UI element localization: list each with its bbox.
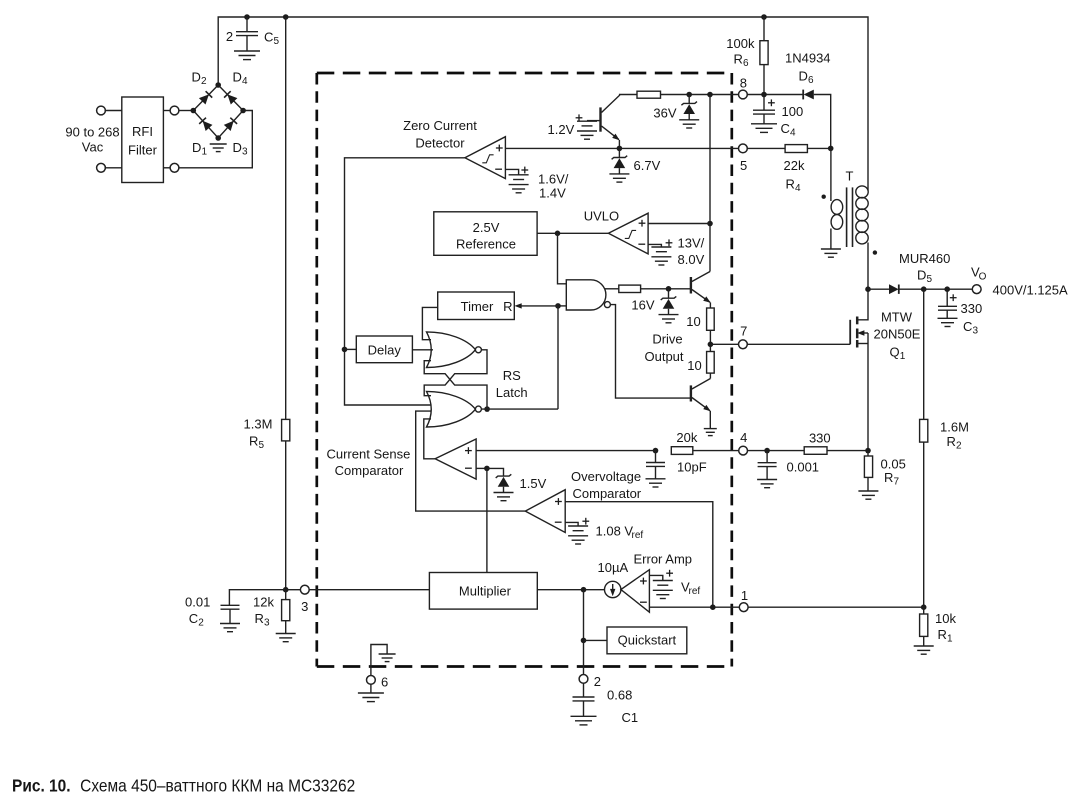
svg-text:Рис. 10. Схема 450–ваттного КК: Рис. 10. Схема 450–ваттного ККМ на MC332… bbox=[12, 776, 355, 796]
svg-text:MTW: MTW bbox=[881, 310, 913, 325]
svg-text:4: 4 bbox=[795, 183, 801, 194]
svg-text:R: R bbox=[786, 177, 795, 192]
svg-text:RS: RS bbox=[503, 368, 521, 383]
svg-text:1.6V/: 1.6V/ bbox=[538, 172, 569, 187]
svg-text:R: R bbox=[734, 52, 743, 67]
svg-text:20N50E: 20N50E bbox=[874, 327, 921, 342]
svg-text:2: 2 bbox=[198, 618, 204, 629]
svg-text:100: 100 bbox=[782, 104, 804, 119]
svg-text:MUR460: MUR460 bbox=[899, 251, 950, 266]
svg-text:C: C bbox=[781, 121, 790, 136]
svg-text:13V/: 13V/ bbox=[678, 236, 705, 251]
svg-text:1N4934: 1N4934 bbox=[785, 51, 831, 66]
svg-text:C: C bbox=[264, 30, 273, 45]
svg-text:Comparator: Comparator bbox=[335, 463, 404, 478]
svg-text:20k: 20k bbox=[676, 430, 697, 445]
svg-text:R: R bbox=[249, 434, 258, 449]
svg-text:10: 10 bbox=[686, 314, 700, 329]
svg-text:4: 4 bbox=[740, 430, 747, 445]
svg-text:R: R bbox=[938, 627, 947, 642]
svg-text:7: 7 bbox=[740, 324, 747, 339]
svg-text:ref: ref bbox=[632, 530, 644, 541]
svg-text:4: 4 bbox=[790, 128, 796, 139]
svg-text:Filter: Filter bbox=[128, 143, 158, 158]
svg-text:Vac: Vac bbox=[82, 140, 104, 155]
svg-text:6: 6 bbox=[743, 58, 749, 69]
svg-text:0.001: 0.001 bbox=[787, 460, 820, 475]
svg-text:1.08 V: 1.08 V bbox=[596, 524, 634, 539]
svg-text:Error Amp: Error Amp bbox=[634, 552, 693, 567]
svg-text:Output: Output bbox=[644, 349, 683, 364]
svg-text:Detector: Detector bbox=[415, 136, 465, 151]
svg-text:3: 3 bbox=[264, 618, 270, 629]
svg-text:D: D bbox=[192, 70, 201, 85]
svg-text:1.4V: 1.4V bbox=[539, 186, 566, 201]
svg-text:1.5V: 1.5V bbox=[520, 476, 547, 491]
svg-text:Latch: Latch bbox=[496, 385, 528, 400]
svg-text:Comparator: Comparator bbox=[573, 486, 642, 501]
svg-text:Current Sense: Current Sense bbox=[326, 447, 410, 462]
svg-text:C: C bbox=[963, 319, 972, 334]
svg-text:10µA: 10µA bbox=[598, 560, 629, 575]
svg-text:D: D bbox=[233, 70, 242, 85]
svg-text:0.01: 0.01 bbox=[185, 595, 210, 610]
svg-text:Delay: Delay bbox=[368, 342, 402, 357]
svg-text:Overvoltage: Overvoltage bbox=[571, 469, 641, 484]
svg-text:8: 8 bbox=[740, 76, 747, 91]
svg-text:ref: ref bbox=[689, 586, 701, 597]
svg-text:330: 330 bbox=[809, 430, 831, 445]
svg-text:T: T bbox=[846, 169, 854, 184]
svg-text:16V: 16V bbox=[631, 298, 654, 313]
svg-text:1.3M: 1.3M bbox=[244, 417, 273, 432]
svg-text:1: 1 bbox=[947, 634, 953, 645]
svg-text:R: R bbox=[503, 299, 512, 314]
svg-text:3: 3 bbox=[242, 147, 248, 158]
svg-text:UVLO: UVLO bbox=[584, 209, 619, 224]
svg-text:10: 10 bbox=[687, 358, 701, 373]
svg-text:2.5V: 2.5V bbox=[473, 220, 500, 235]
svg-text:1.2V: 1.2V bbox=[548, 122, 575, 137]
svg-text:Zero Current: Zero Current bbox=[403, 118, 477, 133]
svg-text:Reference: Reference bbox=[456, 237, 516, 252]
svg-text:2: 2 bbox=[956, 441, 962, 452]
svg-text:400V/1.125A: 400V/1.125A bbox=[993, 283, 1069, 298]
svg-text:4: 4 bbox=[242, 76, 248, 87]
svg-text:D: D bbox=[192, 140, 201, 155]
svg-text:36V: 36V bbox=[653, 106, 676, 121]
svg-text:O: O bbox=[979, 272, 987, 283]
svg-text:6: 6 bbox=[808, 75, 814, 86]
svg-text:2: 2 bbox=[201, 76, 207, 87]
svg-text:C: C bbox=[189, 611, 198, 626]
svg-text:2: 2 bbox=[226, 29, 233, 44]
svg-text:RFI: RFI bbox=[132, 124, 153, 139]
svg-text:330: 330 bbox=[961, 301, 983, 316]
svg-text:10pF: 10pF bbox=[677, 460, 707, 475]
svg-text:R: R bbox=[884, 470, 893, 485]
svg-text:5: 5 bbox=[259, 440, 265, 451]
svg-text:12k: 12k bbox=[253, 595, 274, 610]
svg-text:Timer: Timer bbox=[461, 299, 494, 314]
svg-text:Drive: Drive bbox=[652, 332, 682, 347]
svg-text:Quickstart: Quickstart bbox=[618, 633, 677, 648]
svg-text:R: R bbox=[947, 434, 956, 449]
svg-text:Multiplier: Multiplier bbox=[459, 584, 512, 599]
svg-text:8.0V: 8.0V bbox=[678, 252, 705, 267]
svg-text:0.68: 0.68 bbox=[607, 688, 632, 703]
svg-text:22k: 22k bbox=[784, 158, 805, 173]
svg-text:D: D bbox=[917, 268, 926, 283]
svg-text:6: 6 bbox=[381, 675, 388, 690]
svg-text:1: 1 bbox=[202, 147, 208, 158]
svg-text:3: 3 bbox=[973, 326, 979, 337]
svg-text:1: 1 bbox=[741, 588, 748, 603]
svg-text:100k: 100k bbox=[726, 36, 755, 51]
svg-text:1: 1 bbox=[900, 351, 906, 362]
svg-text:90 to 268: 90 to 268 bbox=[65, 125, 119, 140]
svg-text:6.7V: 6.7V bbox=[634, 158, 661, 173]
svg-text:1.6M: 1.6M bbox=[940, 420, 969, 435]
svg-text:10k: 10k bbox=[935, 611, 956, 626]
svg-text:7: 7 bbox=[894, 477, 900, 488]
svg-text:5: 5 bbox=[740, 158, 747, 173]
svg-text:Q: Q bbox=[890, 345, 900, 360]
svg-text:D: D bbox=[233, 140, 242, 155]
svg-text:R: R bbox=[255, 611, 264, 626]
svg-text:5: 5 bbox=[274, 36, 280, 47]
svg-text:D: D bbox=[799, 69, 808, 84]
svg-text:2: 2 bbox=[594, 674, 601, 689]
svg-text:C1: C1 bbox=[622, 710, 639, 725]
svg-text:3: 3 bbox=[301, 599, 308, 614]
svg-text:5: 5 bbox=[927, 274, 933, 285]
